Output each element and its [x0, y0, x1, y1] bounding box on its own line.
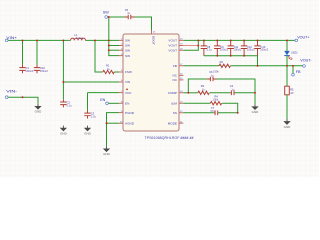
svg-text:SW: SW: [125, 54, 130, 58]
ground GND2: [60, 126, 68, 136]
svg-text:NC: NC: [173, 74, 178, 78]
wire EN: [109, 102, 120, 104]
svg-text:0.1u: 0.1u: [207, 48, 213, 52]
wire VOUT3: [183, 40, 198, 50]
svg-text:GND: GND: [252, 110, 260, 114]
svg-text:VCC: VCC: [125, 91, 132, 95]
wire junction (22.5,40.4): [22, 39, 24, 41]
svg-text:VOUT: VOUT: [168, 48, 177, 52]
svg-text:1R: 1R: [290, 91, 293, 95]
wire junction (106.5,123.2): [106, 122, 108, 124]
wire VCC: [88, 92, 120, 94]
svg-text:100u/2: 100u/2: [25, 69, 33, 73]
wire junction (255,92.8): [254, 92, 256, 94]
wire junction (293,65.8): [292, 65, 294, 67]
wire SW pin2: [109, 45, 119, 47]
svg-text:SW: SW: [125, 44, 130, 48]
wire VIN- rail: [8, 97, 38, 104]
svg-text:R2: R2: [220, 60, 224, 64]
wire C2/VIN branch vertical: [62, 40, 64, 99]
svg-text:100u/2: 100u/2: [40, 69, 48, 73]
svg-text:3.3uH: 3.3uH: [76, 36, 83, 40]
svg-text:EN: EN: [125, 102, 129, 106]
resistor R3 comp: [198, 91, 209, 94]
LED1: [286, 40, 288, 51]
svg-text:SW: SW: [125, 48, 130, 52]
svg-text:100u/2: 100u/2: [247, 48, 255, 52]
ground GND3: [84, 126, 92, 136]
ground GND1: [35, 104, 43, 114]
wire VIN+ rail: [8, 39, 71, 41]
capacitor C2: [60, 99, 66, 107]
port FB: [292, 66, 294, 73]
capacitor C4 comp: [230, 91, 235, 96]
svg-text:R5: R5: [290, 88, 294, 92]
wire junction (287,40.4): [286, 39, 288, 41]
capacitor C6: [207, 77, 217, 82]
ground GND4: [103, 146, 111, 156]
wire junction (63.4,40.4): [62, 39, 64, 41]
background grid: [0, 0, 319, 177]
svg-text:VOUT-: VOUT-: [300, 59, 312, 63]
svg-text:100u/2: 100u/2: [234, 48, 242, 52]
wire junction (108.8,17): [108, 16, 110, 18]
wire FB line: [183, 65, 219, 67]
wire junction (217.3,40.4): [216, 39, 218, 41]
wire SW port to BOOT cap: [108, 16, 126, 18]
capacitor C12: [241, 40, 247, 55]
wire junction (198.3,45.5): [197, 45, 199, 47]
svg-text:100u/2: 100u/2: [220, 48, 228, 52]
wire junction (244.1,40.4): [243, 39, 245, 41]
svg-text:GND: GND: [35, 110, 43, 114]
svg-text:2.2u: 2.2u: [91, 114, 97, 118]
svg-text:GND: GND: [103, 152, 111, 156]
pin stubs right: [179, 40, 183, 123]
wire junction (108.8,50.2): [108, 49, 110, 51]
wire junction (203.9,40.4): [203, 39, 205, 41]
svg-text:AGND: AGND: [125, 121, 135, 125]
capacitor C11: [228, 40, 234, 55]
svg-text:VIN-: VIN-: [6, 89, 18, 93]
wire junction (244.1,55.7): [243, 55, 245, 57]
VCC dot mark: [126, 89, 128, 91]
svg-text:ILIM: ILIM: [171, 101, 177, 105]
wire output cap bottom rail: [204, 56, 258, 66]
svg-text:VOUT: VOUT: [168, 39, 177, 43]
capacitor C1: [19, 65, 25, 73]
pin stub BOOT: [151, 30, 153, 34]
resistor R1: [103, 70, 114, 73]
wire junction (95,40.4): [94, 39, 96, 41]
svg-text:BOOT: BOOT: [152, 36, 156, 45]
svg-text:FB: FB: [296, 70, 301, 74]
wire junction (257.5,40.4): [257, 39, 259, 41]
wire SW pin3: [109, 49, 119, 51]
wire VOUT2 pink: [183, 45, 198, 47]
wire SS line: [183, 112, 214, 114]
wire junction (108.8,45.5): [108, 45, 110, 47]
capacitor C5 bootstrap: [125, 15, 135, 20]
capacitor C8: [201, 40, 207, 55]
svg-text:SS: SS: [173, 111, 177, 115]
wire junction (108.8,40.4): [108, 39, 110, 41]
svg-text:GND: GND: [60, 132, 68, 136]
wire junction (217.3,55.7): [216, 55, 218, 57]
resistor R5 sense: [285, 86, 290, 95]
capacitor C13: [254, 40, 260, 55]
wire C10 branch: [36, 40, 38, 65]
wire junction (63.4,82): [62, 81, 64, 83]
wire VIN pin: [63, 81, 119, 83]
wire junction (257.5,65.8): [257, 65, 259, 67]
wire FSW branch: [95, 40, 103, 72]
svg-text:TPS61088QRHLRGF #### ##: TPS61088QRHLRGF #### ##: [145, 136, 194, 140]
wire junction (230.7,55.7): [230, 55, 232, 57]
wire SW node vertical: [109, 17, 119, 56]
svg-text:GND: GND: [84, 132, 92, 136]
ground GND5: [252, 104, 260, 114]
svg-text:GND: GND: [284, 125, 292, 129]
svg-text:100k: 100k: [213, 69, 219, 73]
wire junction (198.3,40.4): [197, 39, 199, 41]
svg-text:FB: FB: [173, 64, 177, 68]
wire junction (37,40.4): [36, 39, 38, 41]
resistor R2: [219, 64, 230, 67]
svg-text:VOUT: VOUT: [168, 44, 177, 48]
svg-text:0.1u: 0.1u: [67, 103, 73, 107]
wire ILIM line: [183, 102, 210, 104]
svg-text:MODE: MODE: [168, 121, 177, 125]
wire NC / C6 comp line: [188, 79, 207, 93]
svg-text:NC: NC: [173, 78, 178, 82]
wire junction (230.7,40.4): [230, 39, 232, 41]
capacitor C9: [214, 40, 220, 55]
wire junction (287,65.8): [286, 65, 288, 67]
svg-text:VIN: VIN: [125, 80, 130, 84]
svg-text:100k: 100k: [213, 97, 219, 101]
svg-text:PGND: PGND: [125, 111, 135, 115]
pin stubs left: [119, 40, 123, 123]
svg-text:100u/2: 100u/2: [260, 48, 268, 52]
svg-text:LED1: LED1: [291, 50, 298, 54]
svg-text:47n: 47n: [210, 109, 215, 113]
capacitor C10: [34, 65, 40, 73]
wire C1 branch: [22, 40, 24, 65]
wire junction (22.5,97.2): [22, 96, 24, 98]
wire COMP line: [183, 92, 197, 94]
wire junction (237.7,112.8): [237, 112, 239, 114]
wire junction (188.3,92.8): [187, 92, 189, 94]
wire VOUT1 / top rail: [183, 39, 294, 41]
ground GND6: [284, 119, 292, 129]
svg-text:VOUT+: VOUT+: [297, 36, 309, 40]
svg-text:FSW: FSW: [125, 70, 132, 74]
inductor L1: [71, 38, 86, 40]
svg-text:SW: SW: [125, 39, 130, 43]
svg-text:SW: SW: [103, 10, 109, 14]
svg-text:EN: EN: [100, 98, 105, 102]
resistor R4: [210, 102, 221, 105]
svg-text:COMP: COMP: [168, 91, 177, 95]
wire L1 right to SW pin1: [86, 39, 120, 41]
capacitor C7: [214, 111, 219, 116]
IC U1 TPS61088 body: [123, 34, 179, 131]
capacitor C3: [84, 110, 90, 118]
wire PGND/AGND: [107, 113, 120, 147]
